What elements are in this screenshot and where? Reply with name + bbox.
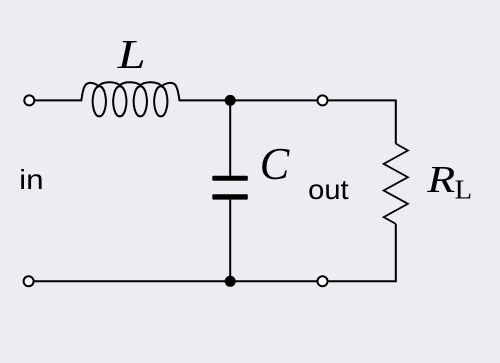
svg-text:in: in [19, 164, 43, 195]
svg-text:L: L [455, 175, 473, 205]
svg-text:out: out [308, 174, 349, 205]
svg-text:C: C [260, 139, 290, 189]
svg-text:R: R [426, 159, 455, 201]
svg-text:L: L [116, 31, 145, 77]
